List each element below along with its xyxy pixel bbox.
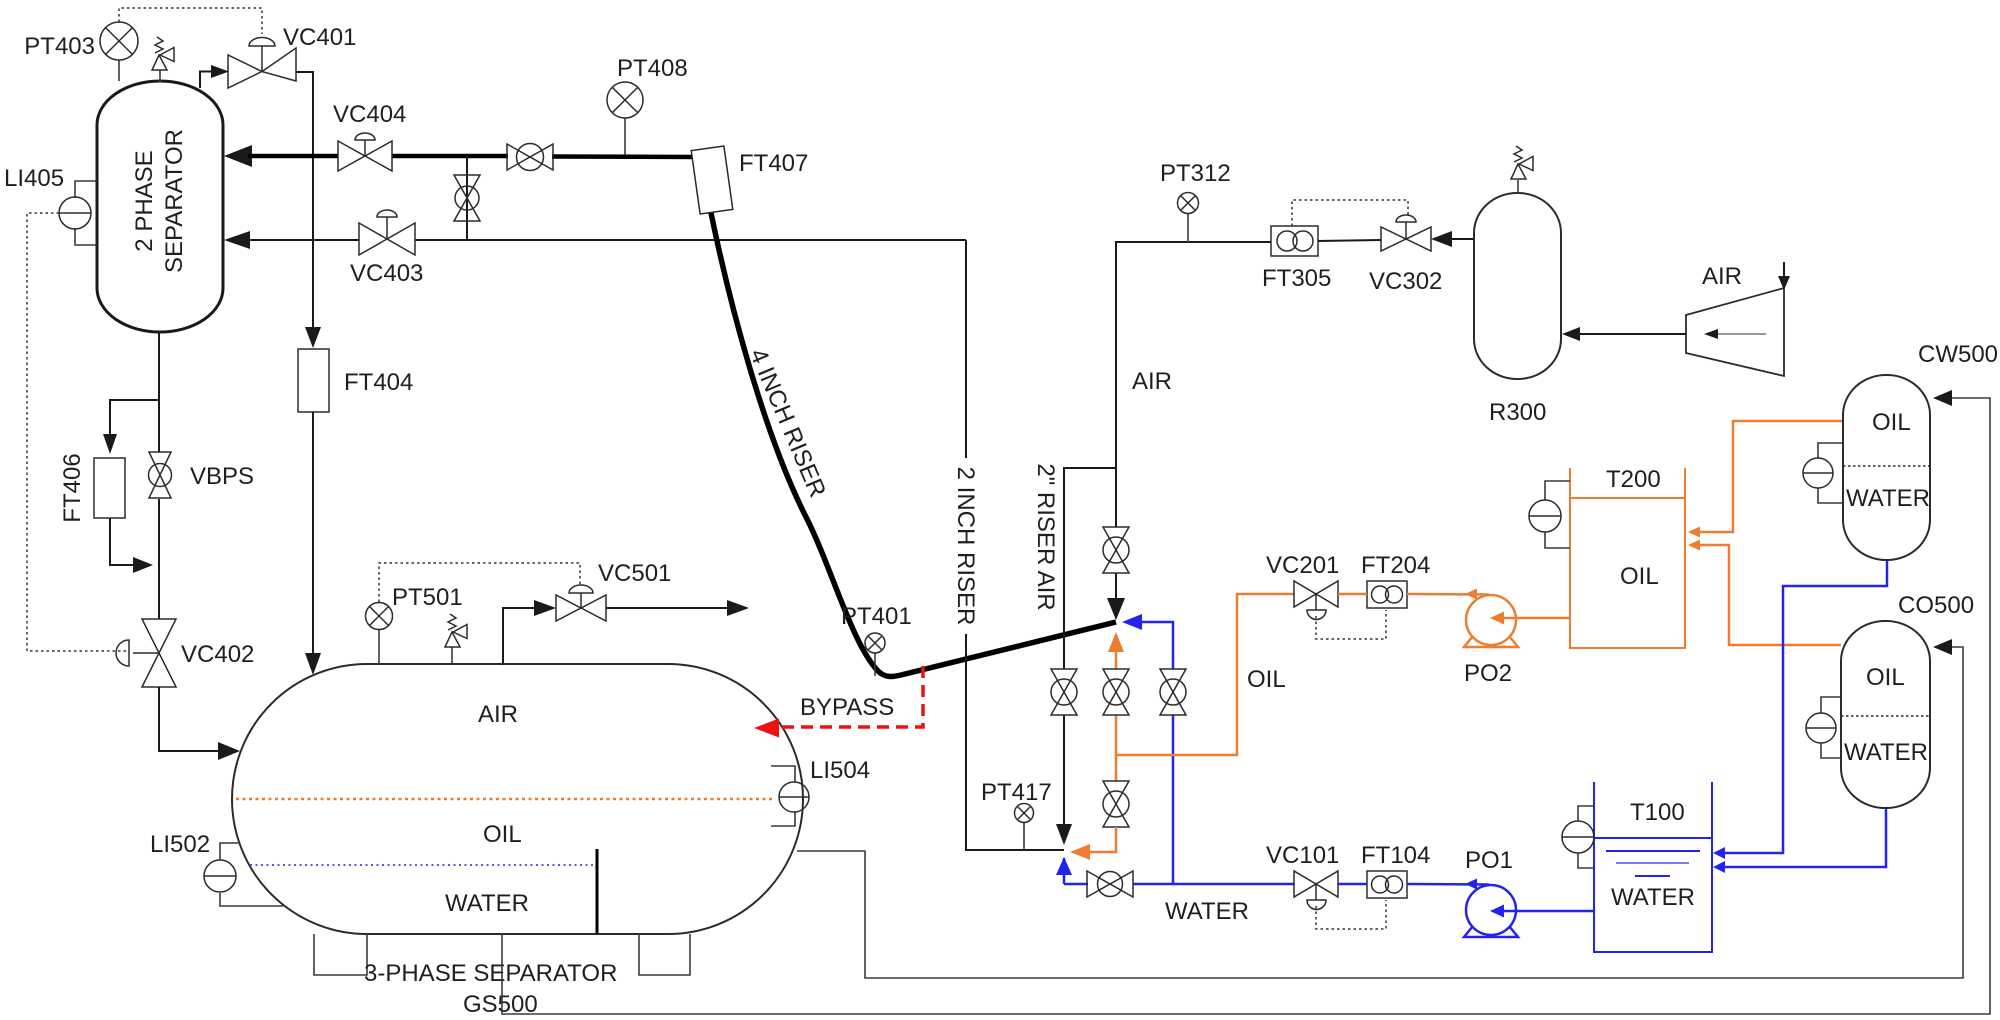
instrument PT501 bbox=[366, 584, 463, 665]
pump PO1 bbox=[1464, 847, 1518, 937]
control valve VC201 bbox=[1266, 552, 1339, 620]
control valve VC302 bbox=[1369, 215, 1442, 295]
ball valve on riser air branch bbox=[1051, 669, 1077, 715]
level indicator LI504 bbox=[771, 757, 870, 826]
GS500 support left bbox=[314, 934, 367, 975]
pipe water header bbox=[1064, 883, 1088, 886]
vent line out bbox=[606, 607, 730, 609]
wire R300 to VC302 bbox=[1449, 238, 1475, 240]
wire bypass to FT406 bbox=[110, 400, 159, 434]
svg-text:T200: T200 bbox=[1606, 466, 1661, 493]
ball valve on air line bbox=[1103, 527, 1129, 573]
arrow water into T100 (lower) bbox=[1713, 861, 1725, 873]
svg-text:PT312: PT312 bbox=[1160, 160, 1231, 187]
arrow into PO2 bbox=[1490, 612, 1504, 625]
arrow vent out bbox=[727, 600, 749, 616]
vessel 2 PHASE SEPARATOR bbox=[97, 81, 223, 332]
svg-text:2" RISER AIR: 2" RISER AIR bbox=[1032, 463, 1059, 610]
svg-text:OIL: OIL bbox=[1872, 409, 1911, 436]
svg-text:PT408: PT408 bbox=[617, 55, 688, 82]
wire VC201 to FT204 bbox=[1338, 593, 1367, 596]
svg-text:VC201: VC201 bbox=[1266, 552, 1339, 579]
svg-text:PO1: PO1 bbox=[1465, 847, 1513, 874]
signal PT501 to VC501 (dotted) bbox=[379, 563, 580, 602]
level gauge T200 bbox=[1529, 481, 1570, 548]
arrow air into junction B bbox=[1056, 824, 1072, 845]
flow meter FT404 bbox=[298, 349, 413, 412]
pipe water CO500 to T100 bbox=[1724, 808, 1886, 867]
arrow into VC302 bbox=[1431, 231, 1452, 247]
svg-text:3-PHASE SEPARATOR: 3-PHASE SEPARATOR bbox=[364, 960, 617, 987]
svg-text:FT204: FT204 bbox=[1361, 552, 1430, 579]
svg-text:VC401: VC401 bbox=[283, 24, 356, 51]
arrow into VC401 bbox=[211, 65, 229, 78]
arrow oil into junction B bbox=[1070, 844, 1090, 860]
arrow water into junction A bbox=[1122, 614, 1142, 630]
svg-text:WATER: WATER bbox=[1844, 739, 1928, 766]
vessel R300 bbox=[1474, 193, 1561, 426]
svg-text:R300: R300 bbox=[1489, 399, 1546, 426]
arrow pump discharge PO1 bbox=[1465, 879, 1477, 890]
svg-text:T100: T100 bbox=[1630, 799, 1685, 826]
svg-text:OIL: OIL bbox=[1247, 666, 1286, 693]
level indicator LI405 bbox=[4, 165, 97, 245]
blue water feed into junction B bbox=[1063, 858, 1066, 884]
signal FT305 to VC302 (dotted) bbox=[1292, 200, 1408, 226]
wire VC401 down to FT404 bbox=[296, 72, 313, 327]
control valve VC404 bbox=[333, 101, 406, 171]
instrument PT401 bbox=[841, 603, 912, 676]
vessel GS500 3-phase separator bbox=[232, 664, 803, 934]
flow meter FT204 bbox=[1361, 552, 1430, 608]
signal VC101 to FT104 (dotted) bbox=[1316, 900, 1386, 929]
svg-text:PO2: PO2 bbox=[1464, 660, 1512, 687]
svg-text:VBPS: VBPS bbox=[190, 463, 254, 490]
wire FT406 back to drain bbox=[110, 518, 134, 565]
arrow into VC501 bbox=[534, 600, 556, 616]
arrow into CW500 bbox=[1933, 390, 1952, 406]
ball valve on gas line bbox=[507, 144, 553, 171]
svg-text:OIL: OIL bbox=[1620, 563, 1659, 590]
arrow water into junction B bbox=[1056, 857, 1072, 875]
svg-text:LI405: LI405 bbox=[4, 165, 64, 192]
GS500 support right bbox=[639, 934, 690, 975]
water level line (blue dotted) bbox=[250, 864, 595, 866]
pipe oil CO500 to T200 bbox=[1698, 545, 1841, 645]
signal LI405 to VC402 (dotted) bbox=[27, 213, 126, 651]
pipe FT204 to PO2 bbox=[1407, 593, 1489, 596]
signal VC201 to FT204 (dotted) bbox=[1316, 610, 1386, 639]
ball valve on blue branch bbox=[1160, 669, 1186, 715]
arrow into GS500 left bbox=[218, 742, 240, 760]
svg-text:CO500: CO500 bbox=[1898, 592, 1974, 619]
wire compressor to R300 bbox=[1576, 333, 1686, 335]
svg-text:PT403: PT403 bbox=[24, 33, 95, 60]
svg-text:FT104: FT104 bbox=[1361, 842, 1430, 869]
svg-text:VC403: VC403 bbox=[350, 260, 423, 287]
signal PT403 to VC401 (dotted) bbox=[119, 8, 262, 34]
svg-text:LI502: LI502 bbox=[150, 831, 210, 858]
wire VC402 to GS500 bbox=[159, 687, 219, 751]
svg-text:AIR: AIR bbox=[478, 701, 518, 728]
wire oil into junction B bbox=[1090, 827, 1116, 852]
svg-text:WATER: WATER bbox=[445, 890, 529, 917]
air compressor inlet cone bbox=[1686, 262, 1790, 376]
level gauge T100 bbox=[1562, 806, 1594, 868]
arrow water into T100 (upper) bbox=[1713, 847, 1725, 859]
pipe 2 inch riser air branch bbox=[1064, 468, 1116, 669]
instrument PT417 bbox=[981, 779, 1052, 850]
svg-text:WATER: WATER bbox=[1846, 485, 1930, 512]
flow meter FT104 bbox=[1361, 842, 1430, 898]
svg-text:VC302: VC302 bbox=[1369, 268, 1442, 295]
arrow gas inlet into separator (thick line) bbox=[224, 145, 252, 167]
ball valve on crossover bbox=[454, 175, 480, 221]
svg-text:VC501: VC501 bbox=[598, 560, 671, 587]
tank T100 bbox=[1594, 782, 1712, 952]
wire crossover between gas lines bbox=[466, 156, 468, 240]
level gauge CW500 bbox=[1803, 443, 1843, 503]
flow meter FT407 bbox=[691, 146, 808, 214]
pipe T100 to PO1 suction bbox=[1497, 910, 1594, 913]
vessel CO500 bbox=[1841, 592, 1974, 808]
level gauge CO500 bbox=[1806, 697, 1841, 758]
flow meter FT305 bbox=[1262, 226, 1331, 292]
weir plate bbox=[596, 849, 599, 934]
pipe thin gas line (2 inch return) bbox=[247, 239, 359, 241]
svg-text:BYPASS: BYPASS bbox=[800, 694, 894, 721]
arrow air into junction A bbox=[1107, 598, 1125, 620]
arrow into GS500 top bbox=[305, 653, 321, 675]
wire VC101 to FT104 bbox=[1338, 883, 1367, 886]
blue water branch from junction A bbox=[1130, 622, 1173, 669]
label 2 INCH RISER bbox=[949, 458, 985, 634]
relief valve PSV on GS500 bbox=[445, 614, 467, 665]
svg-text:2 INCH RISER: 2 INCH RISER bbox=[952, 467, 979, 626]
oil level line (orange dotted) bbox=[236, 798, 772, 801]
svg-text:VC101: VC101 bbox=[1266, 842, 1339, 869]
svg-text:OIL: OIL bbox=[483, 821, 522, 848]
instrument PT403 bbox=[24, 22, 138, 81]
pipe water CW500 to T100 bbox=[1724, 560, 1887, 853]
svg-text:PT417: PT417 bbox=[981, 779, 1052, 806]
pipe T200 to PO2 suction bbox=[1497, 617, 1570, 620]
manual valve VBPS bbox=[149, 452, 255, 498]
pipe oil supply bbox=[1116, 594, 1294, 781]
pipe 2 INCH RISER bbox=[966, 240, 1064, 850]
orange oil branch to junction A bbox=[1115, 650, 1118, 669]
pipe thick gas line bbox=[248, 154, 338, 159]
pipe FT104 to PO1 bbox=[1407, 883, 1489, 886]
ball valve on orange lower branch bbox=[1103, 781, 1129, 827]
svg-text:FT407: FT407 bbox=[739, 150, 808, 177]
control valve VC402 bbox=[116, 619, 254, 687]
pipe GS500 water outlet to CW500 bbox=[502, 398, 1990, 1014]
ball valve on orange upper branch bbox=[1103, 669, 1129, 715]
arrow into R300 bbox=[1562, 327, 1580, 341]
svg-text:VC404: VC404 bbox=[333, 101, 406, 128]
instrument PT312 bbox=[1160, 160, 1231, 242]
pipe 4 INCH RISER (thick curve) bbox=[711, 213, 1116, 676]
tank T200 bbox=[1570, 466, 1685, 648]
vent line from GS500 bbox=[503, 608, 536, 665]
instrument PT408 bbox=[607, 55, 688, 155]
arrow into FT406 bbox=[103, 434, 117, 454]
svg-text:FT406: FT406 bbox=[59, 453, 86, 522]
svg-text:AIR: AIR bbox=[1702, 263, 1742, 290]
pump PO2 bbox=[1464, 595, 1518, 687]
wire vessel to VC401 bbox=[200, 72, 212, 89]
arrow oil into T200 (upper) bbox=[1688, 527, 1700, 538]
svg-text:PT501: PT501 bbox=[392, 584, 463, 611]
svg-text:OIL: OIL bbox=[1866, 664, 1905, 691]
pipe air header bbox=[1116, 242, 1271, 527]
ball valve on water header bbox=[1087, 871, 1133, 897]
control valve VC101 bbox=[1266, 842, 1339, 910]
wire separator bottom drain bbox=[158, 332, 160, 452]
wire FT305 to VC302 bbox=[1318, 240, 1381, 241]
pipe GS500 oil outlet to CO500 bbox=[797, 647, 1963, 978]
svg-text:LI504: LI504 bbox=[810, 757, 870, 784]
svg-text:PT401: PT401 bbox=[841, 603, 912, 630]
arrow into PO1 bbox=[1490, 905, 1504, 918]
arrow oil into T200 (lower) bbox=[1688, 540, 1700, 551]
arrow into CO500 bbox=[1933, 639, 1952, 655]
arrow pump discharge PO2 bbox=[1465, 589, 1477, 600]
svg-text:FT404: FT404 bbox=[344, 369, 413, 396]
level indicator LI502 bbox=[150, 831, 283, 906]
red bypass dashed arrow bbox=[754, 666, 923, 738]
svg-text:FT305: FT305 bbox=[1262, 265, 1331, 292]
svg-text:AIR: AIR bbox=[1132, 368, 1172, 395]
arrow gas inlet into separator (thin line) bbox=[224, 231, 250, 249]
relief valve PSV on R300 bbox=[1511, 146, 1533, 194]
svg-text:WATER: WATER bbox=[1611, 884, 1695, 911]
arrow into FT404 bbox=[305, 327, 321, 348]
pipe oil CW500 to T200 bbox=[1698, 421, 1843, 532]
control valve VC501 bbox=[556, 560, 671, 621]
vessel CW500 bbox=[1843, 341, 1998, 560]
relief valve PSV on 2-phase separator bbox=[152, 37, 174, 82]
control valve VC401 bbox=[228, 24, 356, 88]
wire FT404 to GS500 bbox=[312, 412, 314, 654]
arrow into drain line bbox=[133, 557, 153, 573]
control valve VC403 bbox=[350, 210, 423, 287]
svg-text:VC402: VC402 bbox=[181, 641, 254, 668]
svg-text:CW500: CW500 bbox=[1918, 341, 1998, 368]
svg-text:WATER: WATER bbox=[1165, 898, 1249, 925]
flow meter FT406 bbox=[59, 453, 125, 522]
